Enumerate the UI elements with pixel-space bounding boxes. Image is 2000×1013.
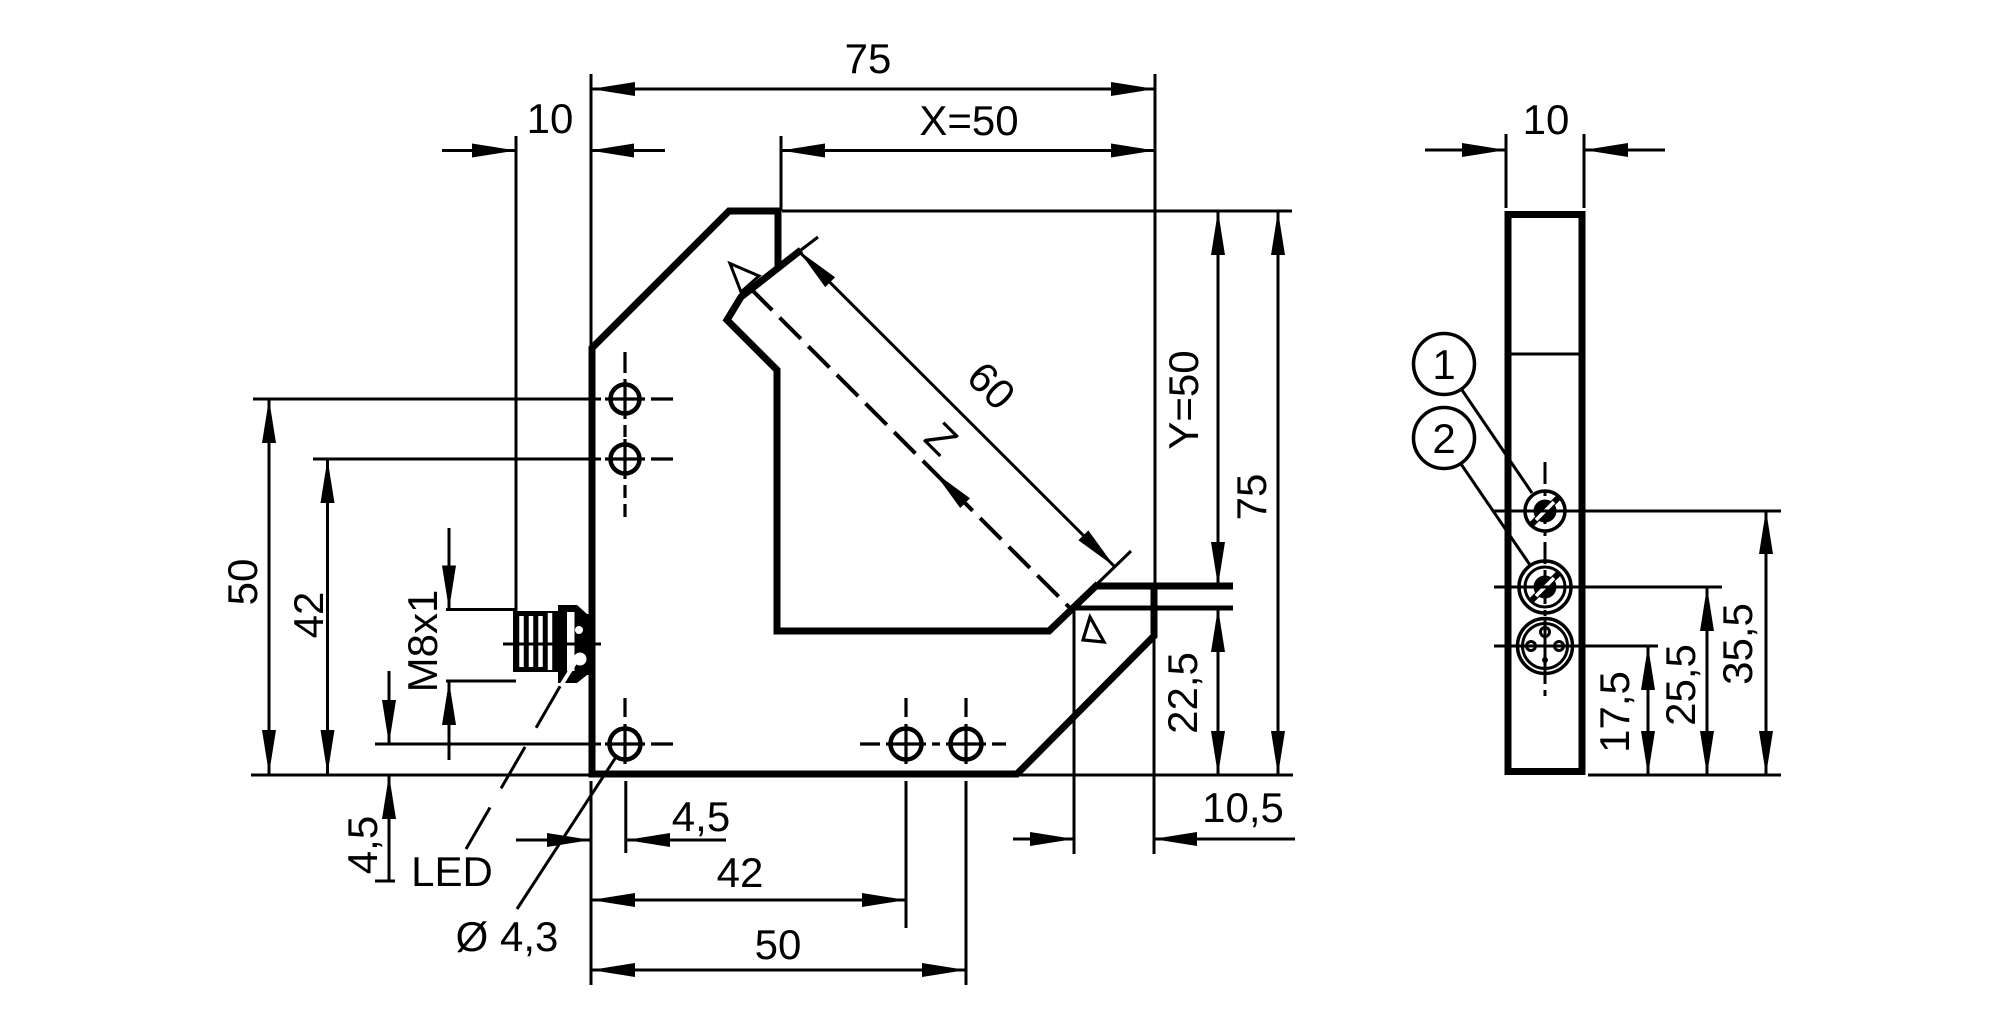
top extension line	[782, 210, 1292, 213]
side centre line vertical	[1544, 462, 1547, 697]
dimension 75 (top)	[591, 35, 1155, 586]
dimension 4,5 (left vertical)	[339, 671, 601, 881]
mounting hole top-left (lower)	[605, 439, 673, 517]
connector centre line	[503, 643, 601, 646]
dimension 75 (right)	[1228, 211, 1285, 775]
svg-text:2: 2	[1432, 415, 1455, 462]
svg-text:35,5: 35,5	[1714, 603, 1761, 685]
svg-text:X=50: X=50	[919, 97, 1018, 144]
side inner edge line	[1510, 353, 1580, 356]
M8 connector face (side)	[1494, 618, 1658, 674]
body outline	[592, 211, 1154, 774]
svg-text:50: 50	[219, 559, 266, 606]
LED 1 (side)	[1494, 491, 1781, 531]
bottom extension line (right)	[1020, 774, 1293, 777]
dimension 17,5 (side)	[1591, 646, 1655, 775]
label diameter 4,3 with leader	[456, 757, 616, 960]
bottom-left extension line	[251, 774, 592, 777]
svg-text:10: 10	[527, 95, 574, 142]
svg-text:50: 50	[755, 921, 802, 968]
dimension 4,5 (bottom)	[516, 793, 730, 847]
beam axis Z (dashed)	[751, 289, 1072, 610]
dimension 50 (bottom)	[591, 921, 966, 977]
aperture bottom edge	[1074, 606, 1233, 611]
svg-text:75: 75	[1228, 474, 1275, 521]
svg-text:75: 75	[845, 35, 892, 82]
mounting hole bottom-right	[946, 698, 1006, 764]
dimension X=50 (top)	[781, 97, 1155, 211]
mounting hole top-left (upper)	[605, 352, 673, 437]
bottom dimension extension verticals	[591, 781, 966, 985]
dimension M8x1	[399, 528, 516, 760]
svg-text:M8x1: M8x1	[399, 590, 446, 693]
svg-text:4,5: 4,5	[339, 816, 386, 874]
dimension 50 (left)	[219, 399, 601, 774]
svg-text:17,5: 17,5	[1591, 671, 1638, 753]
svg-text:42: 42	[717, 849, 764, 896]
dimension 10,5 (bottom right)	[1013, 608, 1295, 854]
dimension 60 (diagonal)	[778, 237, 1131, 584]
receiver marker triangle (exit)	[1083, 617, 1104, 642]
svg-text:10,5: 10,5	[1202, 784, 1284, 831]
beam arrow Z	[934, 472, 970, 508]
svg-text:1: 1	[1432, 341, 1455, 388]
dimension 42 (left)	[285, 459, 601, 774]
dimension 35,5 (side)	[1714, 510, 1773, 775]
side bottom extension line	[1588, 774, 1781, 777]
mounting hole bottom-middle	[860, 698, 940, 764]
M8 connector silhouette	[513, 605, 592, 684]
mounting hole bottom-left	[605, 698, 673, 764]
label LED with leader	[411, 683, 562, 895]
svg-text:22,5: 22,5	[1159, 652, 1206, 734]
svg-text:Y=50: Y=50	[1160, 350, 1207, 449]
circled label 1	[1414, 334, 1533, 494]
circled label 2	[1414, 408, 1531, 566]
dimension Y=50 (right)	[1160, 211, 1225, 586]
dimension 22,5 (right)	[1159, 608, 1225, 775]
svg-text:25,5: 25,5	[1657, 644, 1704, 726]
svg-text:LED: LED	[411, 848, 493, 895]
LED 2 (side)	[1494, 561, 1722, 613]
dimension 25,5 (side)	[1657, 587, 1714, 775]
dimension 10 (top left)	[442, 95, 665, 641]
side body outline	[1508, 215, 1582, 772]
svg-text:Ø 4,3: Ø 4,3	[456, 913, 559, 960]
dimension 42 (bottom)	[591, 849, 906, 907]
emitter marker triangle (mouth)	[730, 264, 759, 293]
dimension 10 (side top)	[1425, 96, 1665, 208]
svg-text:4,5: 4,5	[672, 793, 730, 840]
aperture top edge	[1096, 583, 1233, 590]
svg-text:42: 42	[285, 592, 332, 639]
svg-text:10: 10	[1523, 96, 1570, 143]
